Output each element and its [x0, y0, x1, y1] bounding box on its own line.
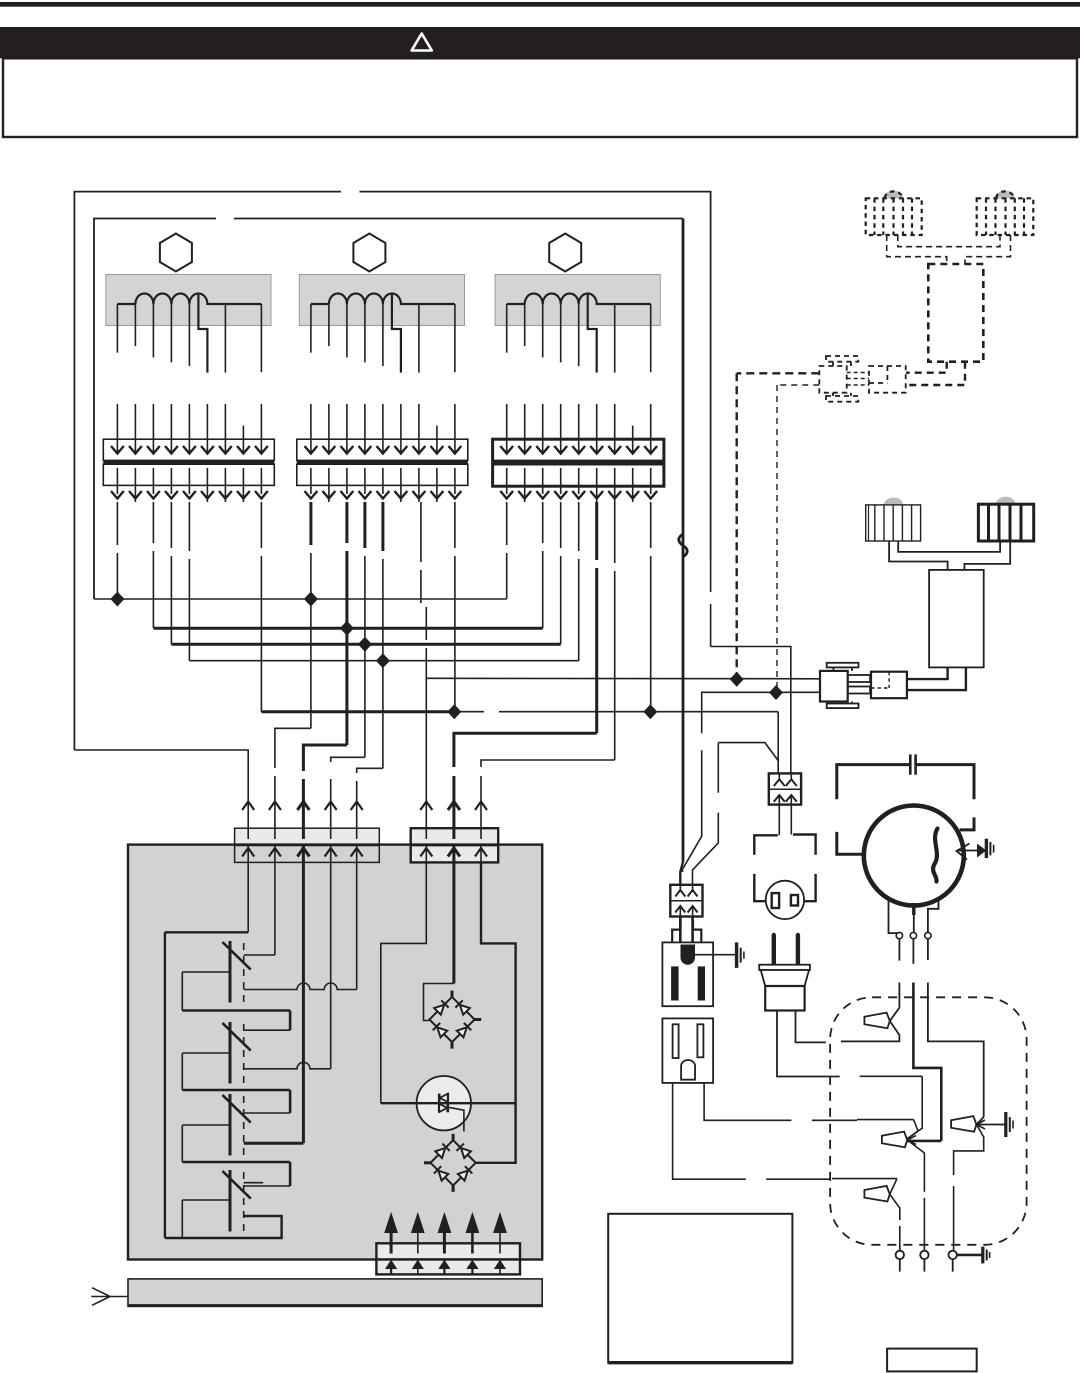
feed wire coil3 p7 to strip2 pin3: [481, 760, 615, 862]
part number box: [887, 1349, 977, 1372]
dashed riser to engine harness: [736, 373, 738, 679]
spark plug P2 (dashed): [977, 191, 1034, 235]
harness connector pins (dashed): [847, 373, 869, 386]
diode bridge BR2: [424, 1134, 476, 1192]
inner frame right edge to connector pin: [680, 862, 683, 885]
TB3 pin arrows above: [385, 1214, 506, 1254]
diode D7: [434, 1166, 449, 1181]
TB3 pin arrows inside: [386, 1261, 505, 1274]
spark plug P4 cap: [996, 497, 1016, 504]
TB2 pin chevrons above: [420, 802, 487, 811]
stator lead wire C into engine box: [928, 983, 984, 1118]
diode D4: [456, 1023, 471, 1038]
harness connector right half (dashed): [869, 366, 906, 393]
TB1 pin3 lead into box (heavy): [302, 862, 305, 1143]
lower lead stubs unit1: [117, 502, 261, 712]
2-pin connector CN5: [670, 885, 702, 917]
circuit breaker CB3: [182, 1094, 290, 1186]
branch wire to inline connector pin1: [718, 743, 778, 761]
CN4 to pilot receptacle leads: [779, 805, 791, 836]
dashed riser to kill lead: [776, 385, 778, 693]
legend box bottom edge: [608, 1361, 792, 1364]
240V plug leads: [777, 1011, 840, 1077]
lead stubs below terminals: [899, 940, 928, 964]
diode D1: [434, 1000, 449, 1015]
warning banner bar: [0, 27, 1080, 58]
ground bus bar bottom edge: [128, 1304, 542, 1307]
warning triangle icon: [412, 34, 432, 51]
diode D8: [458, 1166, 473, 1181]
branch wire to inline connector pin2: [711, 647, 791, 775]
bullet connector left half: [820, 663, 859, 708]
terminal strip TB2: [411, 828, 499, 862]
spark plug P3 cap: [884, 498, 903, 505]
stator outer frame: [74, 192, 341, 750]
CB3 output wire (heavy): [244, 1142, 304, 1145]
wire bus 2 (heavy): [153, 627, 542, 630]
diode D2: [455, 1000, 470, 1015]
circuit breaker CB2: [182, 1022, 290, 1113]
flywheel output leads: [889, 897, 939, 933]
CN5 to 240V receptacle leads: [680, 917, 692, 948]
gate bus through triac: [381, 1102, 516, 1104]
page top rule: [0, 2, 1080, 7]
circuit breaker CB4: [182, 1170, 263, 1238]
spark plug P1 (dashed): [866, 191, 922, 235]
dashed lead to stop bus: [737, 372, 820, 374]
diode D6: [456, 1144, 471, 1159]
armature output leads (dashed): [906, 362, 965, 385]
TB2 pin wires through strip: [426, 828, 481, 862]
connector block CN3 (heavy style): [493, 439, 664, 486]
circuit breaker CB1: [182, 941, 290, 1030]
feed wire coil3 p6 to strip2 pin2 (heavy): [454, 733, 597, 862]
120V duplex receptacle: [662, 1018, 713, 1083]
feed wire bus1 to strip1 pin2: [275, 728, 311, 862]
coil assembly 3: [495, 234, 660, 503]
CB1 output wire with hops: [244, 983, 357, 990]
TB1 pin chevrons inside: [242, 848, 363, 857]
TB2 pin3 lead into box: [476, 862, 516, 1163]
TB1 pin2 lead into box: [274, 862, 276, 955]
legend box: [608, 1214, 792, 1363]
stator lead wire B into engine box: [913, 983, 941, 1141]
240V plug body: [759, 965, 810, 1011]
terminal strip TB3: [376, 1243, 520, 1274]
engine ground lead: [957, 1254, 982, 1257]
stator lead terminals: [896, 932, 931, 938]
rotated ground at engine: [983, 1247, 990, 1264]
rotated ground at flywheel: [986, 839, 993, 858]
coil assembly 2: [299, 234, 464, 503]
TB1 pin5 lead into box: [356, 862, 358, 990]
strip TB2 divider thick line: [411, 843, 499, 846]
wire bus 4: [189, 660, 578, 662]
stator inner frame top right section: [234, 218, 683, 220]
spark gap arrow to ground: [957, 844, 986, 860]
dashed plug leads: [887, 235, 1011, 264]
rotated ground at S3: [1006, 1112, 1013, 1137]
TB1 pin4 lead into box: [330, 862, 332, 1069]
spade terminal S2: [857, 1076, 941, 1251]
ground lead from 240V receptacle: [695, 954, 736, 956]
breaker ladder bottom bus: [165, 1216, 282, 1238]
diode bridge BR1: [429, 991, 481, 1049]
TB1 pin1 lead into box: [247, 862, 249, 932]
breaker ladder top link: [165, 931, 248, 933]
inline connector CN4: [769, 773, 801, 804]
diode D3: [433, 1023, 448, 1038]
stator lead wires into box: [898, 983, 900, 1008]
lower lead stubs unit3: [507, 502, 651, 760]
wire drop to inline connector pin1: [777, 712, 779, 774]
feed wire bus3 to strip1 pin4: [331, 757, 365, 862]
TB1 pin wires through strip: [248, 828, 357, 862]
feed wire bus2 to strip1 pin3 (heavy): [303, 745, 347, 862]
stator outer frame right section: [360, 192, 711, 560]
solid plug leads: [889, 541, 1010, 570]
ground bus bar: [128, 1279, 542, 1306]
pilot receptacle bracket outline: [754, 835, 815, 902]
wire bus 1: [94, 598, 507, 600]
link to bridge1 left: [424, 984, 454, 1021]
240V twist-lock receptacle: [662, 942, 713, 1006]
pilot light receptacle: [766, 881, 804, 919]
stator inner frame right edge wire: [682, 219, 685, 862]
feed wire bus4 to strip1 pin5: [357, 768, 383, 862]
control box housing: [128, 845, 542, 1260]
ignition armature (dashed): [928, 264, 983, 362]
120V receptacle right lead wire: [704, 1083, 857, 1120]
flywheel: [864, 806, 964, 906]
coil output leads: [907, 667, 966, 690]
terminal strip TB1: [235, 828, 380, 862]
240V receptacle molded entry: [672, 921, 701, 942]
outer frame right edge continuation (broken): [710, 560, 712, 647]
breaker ladder left bus: [164, 932, 166, 1238]
dashed lead to kill riser: [777, 384, 819, 386]
stator inner frame: [94, 219, 216, 600]
TB2 pin1 lead into box: [381, 862, 427, 1103]
spark plug P4 (bold): [978, 504, 1033, 541]
spark plug P3: [866, 505, 921, 541]
wire bus 6 to bullet connector: [426, 677, 820, 680]
240V plug prongs: [774, 935, 798, 965]
240V plug right lead wire: [796, 1011, 826, 1043]
engine terminal studs: [896, 1251, 957, 1272]
harness connector left half (dashed): [819, 356, 858, 402]
spade terminal S3: [951, 1116, 1004, 1251]
flywheel magnet squiggle: [933, 829, 937, 882]
triac module: [417, 1076, 471, 1132]
wire bus 5 thin section: [454, 711, 778, 713]
inner frame right edge squiggle: [679, 534, 688, 557]
rotated ground at 240V receptacle: [737, 942, 744, 968]
strip divider thick lines: [235, 843, 380, 846]
bullet connector pins: [848, 675, 870, 694]
spark plug P1 cap (dashed): [883, 191, 903, 199]
spark plug P2 cap (dashed): [995, 191, 1015, 199]
TB2 pin chevrons inside: [420, 848, 487, 857]
spade terminal S1: [857, 1008, 899, 1042]
feed riser strip2 pin1: [425, 607, 427, 862]
connector block CN1: [103, 439, 274, 485]
wire bus 5: [261, 710, 454, 713]
ground bus arrow: [91, 1288, 128, 1306]
wire drop to connector CN5 pin2: [693, 743, 719, 885]
TB1 pin chevrons above: [242, 802, 363, 811]
ignition coil (solid): [929, 570, 984, 668]
bullet connector right half: [871, 672, 907, 699]
TB2 pin2 lead into box (heavy): [452, 862, 455, 984]
wire bus 3 (heavy): [171, 643, 560, 646]
magneto bracket with capacitor: [837, 754, 974, 854]
coil assembly 1: [106, 234, 271, 503]
120V receptacle leads: [673, 1083, 831, 1179]
CB2 output wire with hop: [244, 1062, 331, 1069]
spade terminal S4: [832, 1179, 900, 1251]
connector block CN2: [297, 439, 468, 485]
wire bus 7 to bullet connector: [683, 692, 821, 872]
diode D5: [435, 1144, 450, 1159]
wire from plug right lead into S1: [841, 1040, 857, 1042]
feed wire frame-left to strip1 pin1: [74, 750, 248, 862]
warning text box: [3, 58, 1077, 137]
lower lead stubs unit2: [311, 502, 455, 768]
link TB1 pin2 to breaker1: [244, 954, 275, 956]
junction dots: [110, 592, 783, 720]
